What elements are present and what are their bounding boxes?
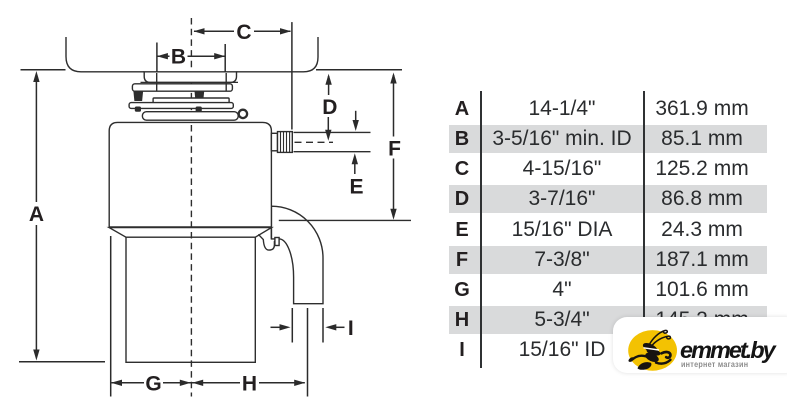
hose clamp ring [142,112,238,121]
mounting tab hook [259,235,275,250]
dishwasher inlet ribbed nipple [278,132,293,153]
svg-text:G: G [145,372,161,395]
logo yellow disc [628,330,677,371]
row F shade [449,246,767,274]
sink flange lip [144,72,236,83]
arrowhead B right [214,53,225,59]
dim F line [393,75,395,217]
clamp block [275,238,279,246]
dim GH line [112,382,305,384]
arrowhead G right [180,380,191,386]
row H [0,305,787,335]
top extension right (sink level) [316,69,402,71]
arrowhead D up [325,74,331,85]
disposer upper body [109,122,271,227]
ant arm with fist [662,351,671,357]
ant eye patch [646,347,662,357]
label F bg [386,137,403,159]
arrowhead C right [280,28,291,34]
mounting bolt right [195,91,203,100]
arrowhead B left [157,53,168,59]
ant antenna 2 [652,336,671,346]
flange neck left wall [156,73,158,91]
arrowhead F up [390,73,396,84]
row B [0,124,787,154]
dim E arrow down shaft [355,111,357,128]
arrowhead A up [33,71,39,82]
vertical dashed centerline [190,18,192,397]
arrowhead D down [325,130,331,141]
dim C line [194,30,291,32]
dim A top extension [21,69,66,71]
row H shade [449,306,767,334]
row I [0,335,787,365]
row A [0,94,787,124]
table divider 2 [643,91,645,340]
row G [0,275,787,305]
row B shade [449,125,767,153]
svg-text:C: C [236,21,251,44]
arrowhead C left [194,28,205,34]
row D [0,184,787,214]
upper mounting ring [132,84,232,91]
inlet dashed centerline [295,141,334,143]
ant head [642,341,659,354]
label G bg [144,372,163,393]
svg-text:H: H [242,372,257,395]
clamp screw eye [239,110,247,118]
watermark white card [613,317,787,374]
bolt tip right [196,107,202,112]
arrowhead E up [352,153,358,164]
row E [0,215,787,245]
dim E arrow up shaft [354,156,356,174]
dim A bottom extension [19,361,105,363]
front foot [628,356,635,363]
dim I extension right [322,308,324,343]
label H bg [240,372,259,393]
sink basin right wall [237,37,319,72]
arrowhead H right [294,380,305,386]
dim I left shaft [271,326,282,328]
lower grind housing [126,237,255,362]
dim B line [158,55,225,57]
label C bg [234,21,254,42]
dim I extension left [291,308,293,343]
svg-text:B: B [171,46,186,69]
flange gasket line [141,81,239,83]
dim D arrow up shaft [328,76,330,95]
dim B extension right [224,44,226,72]
row D shade [449,185,767,213]
support ring lower [129,103,233,109]
row C [0,154,787,184]
dim G extension left [110,236,112,397]
label B bg [170,46,188,66]
dim I right shaft [336,326,345,328]
arrowhead H left [192,380,203,386]
support ring upper [153,98,229,103]
sink basin left wall [66,37,144,72]
discharge elbow [271,206,323,304]
E guide line bottom (inlet OD bottom) [294,151,371,153]
table divider 1 [480,91,482,368]
dim A line [35,78,37,355]
label A bg [27,202,46,225]
mounting bolt left [134,91,142,100]
eye white slash [644,347,660,349]
arrowhead G left [111,380,122,386]
flange neck right wall [225,73,227,91]
ant front leg [633,355,647,359]
arrowhead A down [33,350,39,361]
E guide line top (inlet OD top) [294,131,371,133]
body bottom skirt [109,228,271,238]
dim H extension right (pipe centerline) [307,308,309,397]
F reference line (discharge centerline level) [279,219,411,221]
ant abdomen swoosh [656,359,671,363]
nipple ribs [281,132,290,153]
label backgrounds [27,21,403,393]
ant antenna 1 [649,330,667,344]
ant thorax [644,350,660,363]
watermark subtitle [681,360,772,369]
dishwasher inlet base [271,133,277,151]
watermark wordmark [680,338,787,362]
row F [0,245,787,275]
bolt tip left [135,107,141,112]
dim B extension left [156,43,158,73]
arrowhead F down [390,209,396,220]
dim D arrow down shaft [327,117,329,138]
watermark logo [613,317,787,374]
ant rear shoe swoosh [638,362,652,370]
arrowhead I right-pointing-left [325,324,336,330]
arrowhead E down [353,120,359,131]
arrowhead I left-pointing-right [280,324,291,330]
dim C extension [291,22,293,129]
body wall stub to elbow [270,227,272,239]
